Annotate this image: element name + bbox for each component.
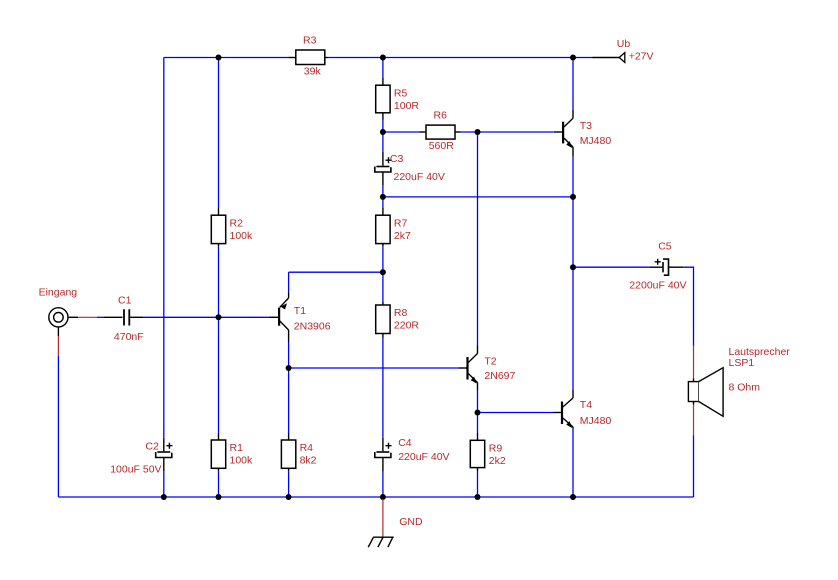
resistor R4 [281, 433, 316, 471]
svg-text:8k2: 8k2 [300, 455, 317, 467]
svg-text:C1: C1 [118, 295, 132, 307]
capacitor C3 [375, 152, 445, 185]
wire C3 node to T3 emitter node [383, 196, 573, 198]
wire ground rail [58, 496, 693, 498]
wire base node to R1 [218, 317, 220, 433]
transistor T4 MJ480 [553, 390, 611, 429]
wire T3 emitter down [572, 156, 574, 197]
svg-text:R4: R4 [300, 442, 314, 454]
wire node to R7 [382, 197, 384, 208]
wire R6 right [461, 131, 478, 133]
node C3 R7 junction [380, 194, 386, 200]
svg-text:C3: C3 [390, 153, 404, 165]
node top rail R2 tap [216, 55, 222, 61]
resistor R1 [211, 433, 253, 471]
resistor R8 [376, 302, 420, 338]
svg-text:100uF 50V: 100uF 50V [110, 464, 161, 476]
transistor T2 2N697 [459, 346, 516, 391]
resistor R2 [211, 208, 253, 246]
svg-text:R6: R6 [434, 110, 448, 122]
svg-text:Eingang: Eingang [39, 287, 78, 299]
wire R7 to R8 node [382, 246, 384, 272]
wire T1 collector to R4 [288, 368, 290, 433]
svg-text:T3: T3 [580, 120, 592, 132]
transistor T3 MJ480 [554, 110, 612, 156]
node top rail T3 collector tap [570, 55, 576, 61]
ground GND [368, 499, 423, 547]
svg-text:Ub: Ub [617, 38, 631, 50]
wire R1 to ground rail [218, 471, 220, 497]
capacitor C2 [110, 438, 172, 476]
svg-text:R5: R5 [394, 87, 408, 99]
svg-text:T1: T1 [294, 305, 306, 317]
wire T3 emitter node to speaker node [572, 197, 574, 267]
svg-text:100k: 100k [230, 230, 254, 242]
svg-text:2N3906: 2N3906 [294, 320, 331, 332]
wire T1 emitter to R7 R8 node [289, 271, 383, 273]
wire R2 column [218, 58, 220, 209]
svg-text:220uF 40V: 220uF 40V [394, 171, 445, 183]
svg-text:2k7: 2k7 [394, 230, 411, 242]
wire C5 to speaker corner [683, 267, 693, 346]
wire R6 node to T3 base [478, 131, 554, 133]
connector J Eingang [39, 287, 97, 357]
wire R6 left [383, 131, 420, 133]
speaker LSP1 [688, 346, 790, 435]
wire T2 emitter node to R9 [477, 413, 479, 434]
resistor R3 [288, 35, 327, 78]
wire T3 collector up [572, 58, 574, 111]
wire T4 emitter to ground rail [572, 429, 574, 498]
svg-text:220uF 40V: 220uF 40V [398, 451, 449, 463]
wire node to R8 [382, 272, 384, 302]
node T2 emitter T4 base junction [475, 410, 481, 416]
wire left C2 branch lower [163, 471, 165, 497]
capacitor C5 [629, 240, 686, 291]
node speaker tap junction [570, 264, 576, 270]
wire R9 to ground rail [477, 471, 479, 497]
resistor R9 [470, 433, 506, 471]
capacitor C1 [104, 295, 144, 344]
wire R8 to C4 [382, 338, 384, 438]
svg-text:560R: 560R [429, 140, 455, 152]
node T1 collector junction [286, 365, 292, 371]
wire R5 top [382, 58, 384, 79]
svg-text:C2: C2 [145, 440, 159, 452]
node ground rail R9 [475, 494, 481, 500]
wire T2 emitter down [477, 390, 479, 413]
wire T2 node to T4 base [478, 412, 554, 414]
svg-text:470nF: 470nF [114, 331, 144, 343]
wire R4 to ground rail [288, 471, 290, 497]
node T3 emitter junction [570, 194, 576, 200]
resistor R5 [376, 78, 420, 120]
svg-text:220R: 220R [394, 320, 420, 332]
wire C1 to T1 base [143, 316, 269, 318]
wire T1 emitter up [288, 272, 290, 292]
svg-text:GND: GND [399, 516, 423, 528]
svg-text:100R: 100R [394, 100, 420, 112]
svg-text:MJ480: MJ480 [580, 415, 612, 427]
wire left C2 branch upper [163, 58, 165, 438]
node T1 base junction [216, 314, 222, 320]
svg-text:2200uF 40V: 2200uF 40V [629, 280, 686, 292]
resistor R7 [376, 208, 411, 246]
svg-text:R8: R8 [394, 307, 408, 319]
node R5 R6 junction [380, 129, 386, 135]
svg-text:C5: C5 [658, 240, 672, 252]
svg-text:C4: C4 [398, 437, 412, 449]
node top rail R5 tap [380, 55, 386, 61]
svg-text:2N697: 2N697 [484, 370, 515, 382]
wire R5 bottom to R6 node [382, 120, 384, 152]
node ground rail C2 [161, 494, 167, 500]
wire top rail left segment [164, 57, 288, 59]
svg-text:+27V: +27V [629, 51, 654, 63]
node ground rail T4 emitter [570, 494, 576, 500]
node ground rail GND [380, 494, 386, 500]
wire C4 to ground rail [382, 471, 384, 497]
svg-text:R1: R1 [230, 442, 244, 454]
svg-text:R7: R7 [394, 217, 408, 229]
svg-text:T4: T4 [580, 399, 592, 411]
svg-text:39k: 39k [304, 65, 322, 77]
wire T1 collector down [288, 342, 290, 368]
wire T2 collector column [477, 132, 479, 346]
wire speaker node to T4 collector [572, 267, 574, 390]
power terminal Ub +27V [593, 38, 654, 63]
wire T1 collector to T2 base [289, 367, 459, 369]
node ground rail R1 [216, 494, 222, 500]
svg-text:R3: R3 [303, 35, 317, 47]
svg-text:MJ480: MJ480 [580, 135, 612, 147]
svg-text:8 Ohm: 8 Ohm [729, 382, 761, 394]
node R7 R8 T1 emitter junction [380, 269, 386, 275]
svg-text:R2: R2 [230, 217, 244, 229]
svg-text:T2: T2 [484, 356, 496, 368]
wire C3 bottom to node [382, 185, 384, 197]
wire R2 to base node [218, 246, 220, 317]
svg-text:R9: R9 [489, 443, 503, 455]
node ground rail R4 [286, 494, 292, 500]
node R6 T2 collector junction [475, 129, 481, 135]
wire speaker bottom to ground rail [693, 435, 695, 497]
wire input jack down [57, 356, 59, 497]
wire input jack to C1 [97, 316, 104, 318]
capacitor C4 [375, 437, 450, 471]
wire speaker node to C5 [573, 266, 650, 268]
wire top rail right segment [328, 57, 593, 59]
svg-text:LSP1: LSP1 [729, 357, 755, 369]
resistor R6 [420, 110, 461, 152]
transistor T1 2N3906 [269, 292, 331, 342]
svg-text:2k2: 2k2 [489, 455, 506, 467]
svg-text:100k: 100k [230, 455, 254, 467]
